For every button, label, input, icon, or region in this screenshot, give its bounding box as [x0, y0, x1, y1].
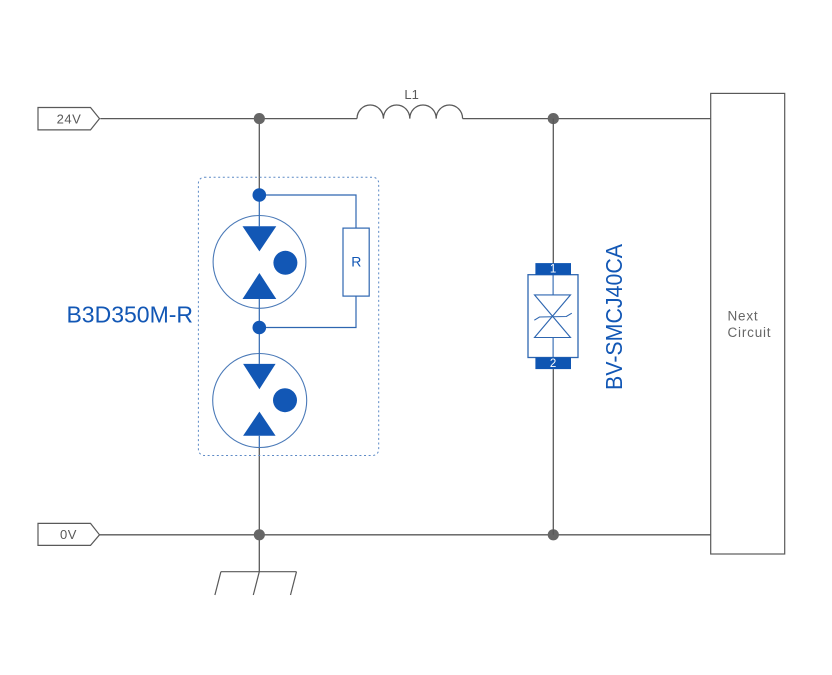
wire left column top (junction to GDT): [258, 119, 260, 195]
junction dot top-left: [254, 113, 265, 124]
GDT module dashed outline: [198, 177, 378, 455]
svg-text:1: 1: [550, 264, 556, 276]
svg-text:Circuit: Circuit: [728, 325, 772, 340]
svg-text:BV-SMCJ40CA: BV-SMCJ40CA: [601, 243, 627, 390]
wire 24V rail right: [463, 118, 711, 120]
gas discharge tube 1: [213, 216, 306, 309]
wire left column bottom (GDT to 0V rail): [258, 447, 260, 535]
wire TVS top lead: [552, 119, 554, 264]
gas discharge tube 2: [213, 354, 307, 448]
wire resistor top branch: [259, 195, 356, 228]
resistor R: [343, 228, 369, 296]
net label 0V: [38, 523, 100, 545]
junction dot bottom-right: [548, 529, 559, 540]
junction dot GDT top: [252, 188, 266, 202]
wire 24V rail left: [100, 118, 357, 120]
svg-text:R: R: [351, 254, 361, 270]
svg-text:2: 2: [550, 358, 556, 370]
TVS diode BV-SMCJ40CA: [528, 263, 578, 370]
wire ground stem: [258, 535, 260, 572]
wire 0V rail: [100, 534, 711, 536]
junction dot GDT mid: [252, 321, 266, 335]
next circuit block: [711, 93, 785, 554]
inductor L1: [357, 105, 463, 119]
svg-text:0V: 0V: [60, 527, 77, 542]
junction dot top-right: [548, 113, 559, 124]
wire TVS bottom lead: [552, 369, 554, 535]
ground: [215, 572, 297, 595]
svg-text:B3D350M-R: B3D350M-R: [66, 302, 193, 328]
wire resistor bottom branch: [259, 296, 356, 327]
wire GDT internal vertical: [258, 195, 260, 447]
svg-text:24V: 24V: [57, 111, 82, 126]
svg-text:L1: L1: [404, 87, 418, 102]
net label 24V: [38, 108, 100, 130]
svg-text:Next: Next: [728, 309, 759, 324]
junction dot bottom-left: [254, 529, 265, 540]
